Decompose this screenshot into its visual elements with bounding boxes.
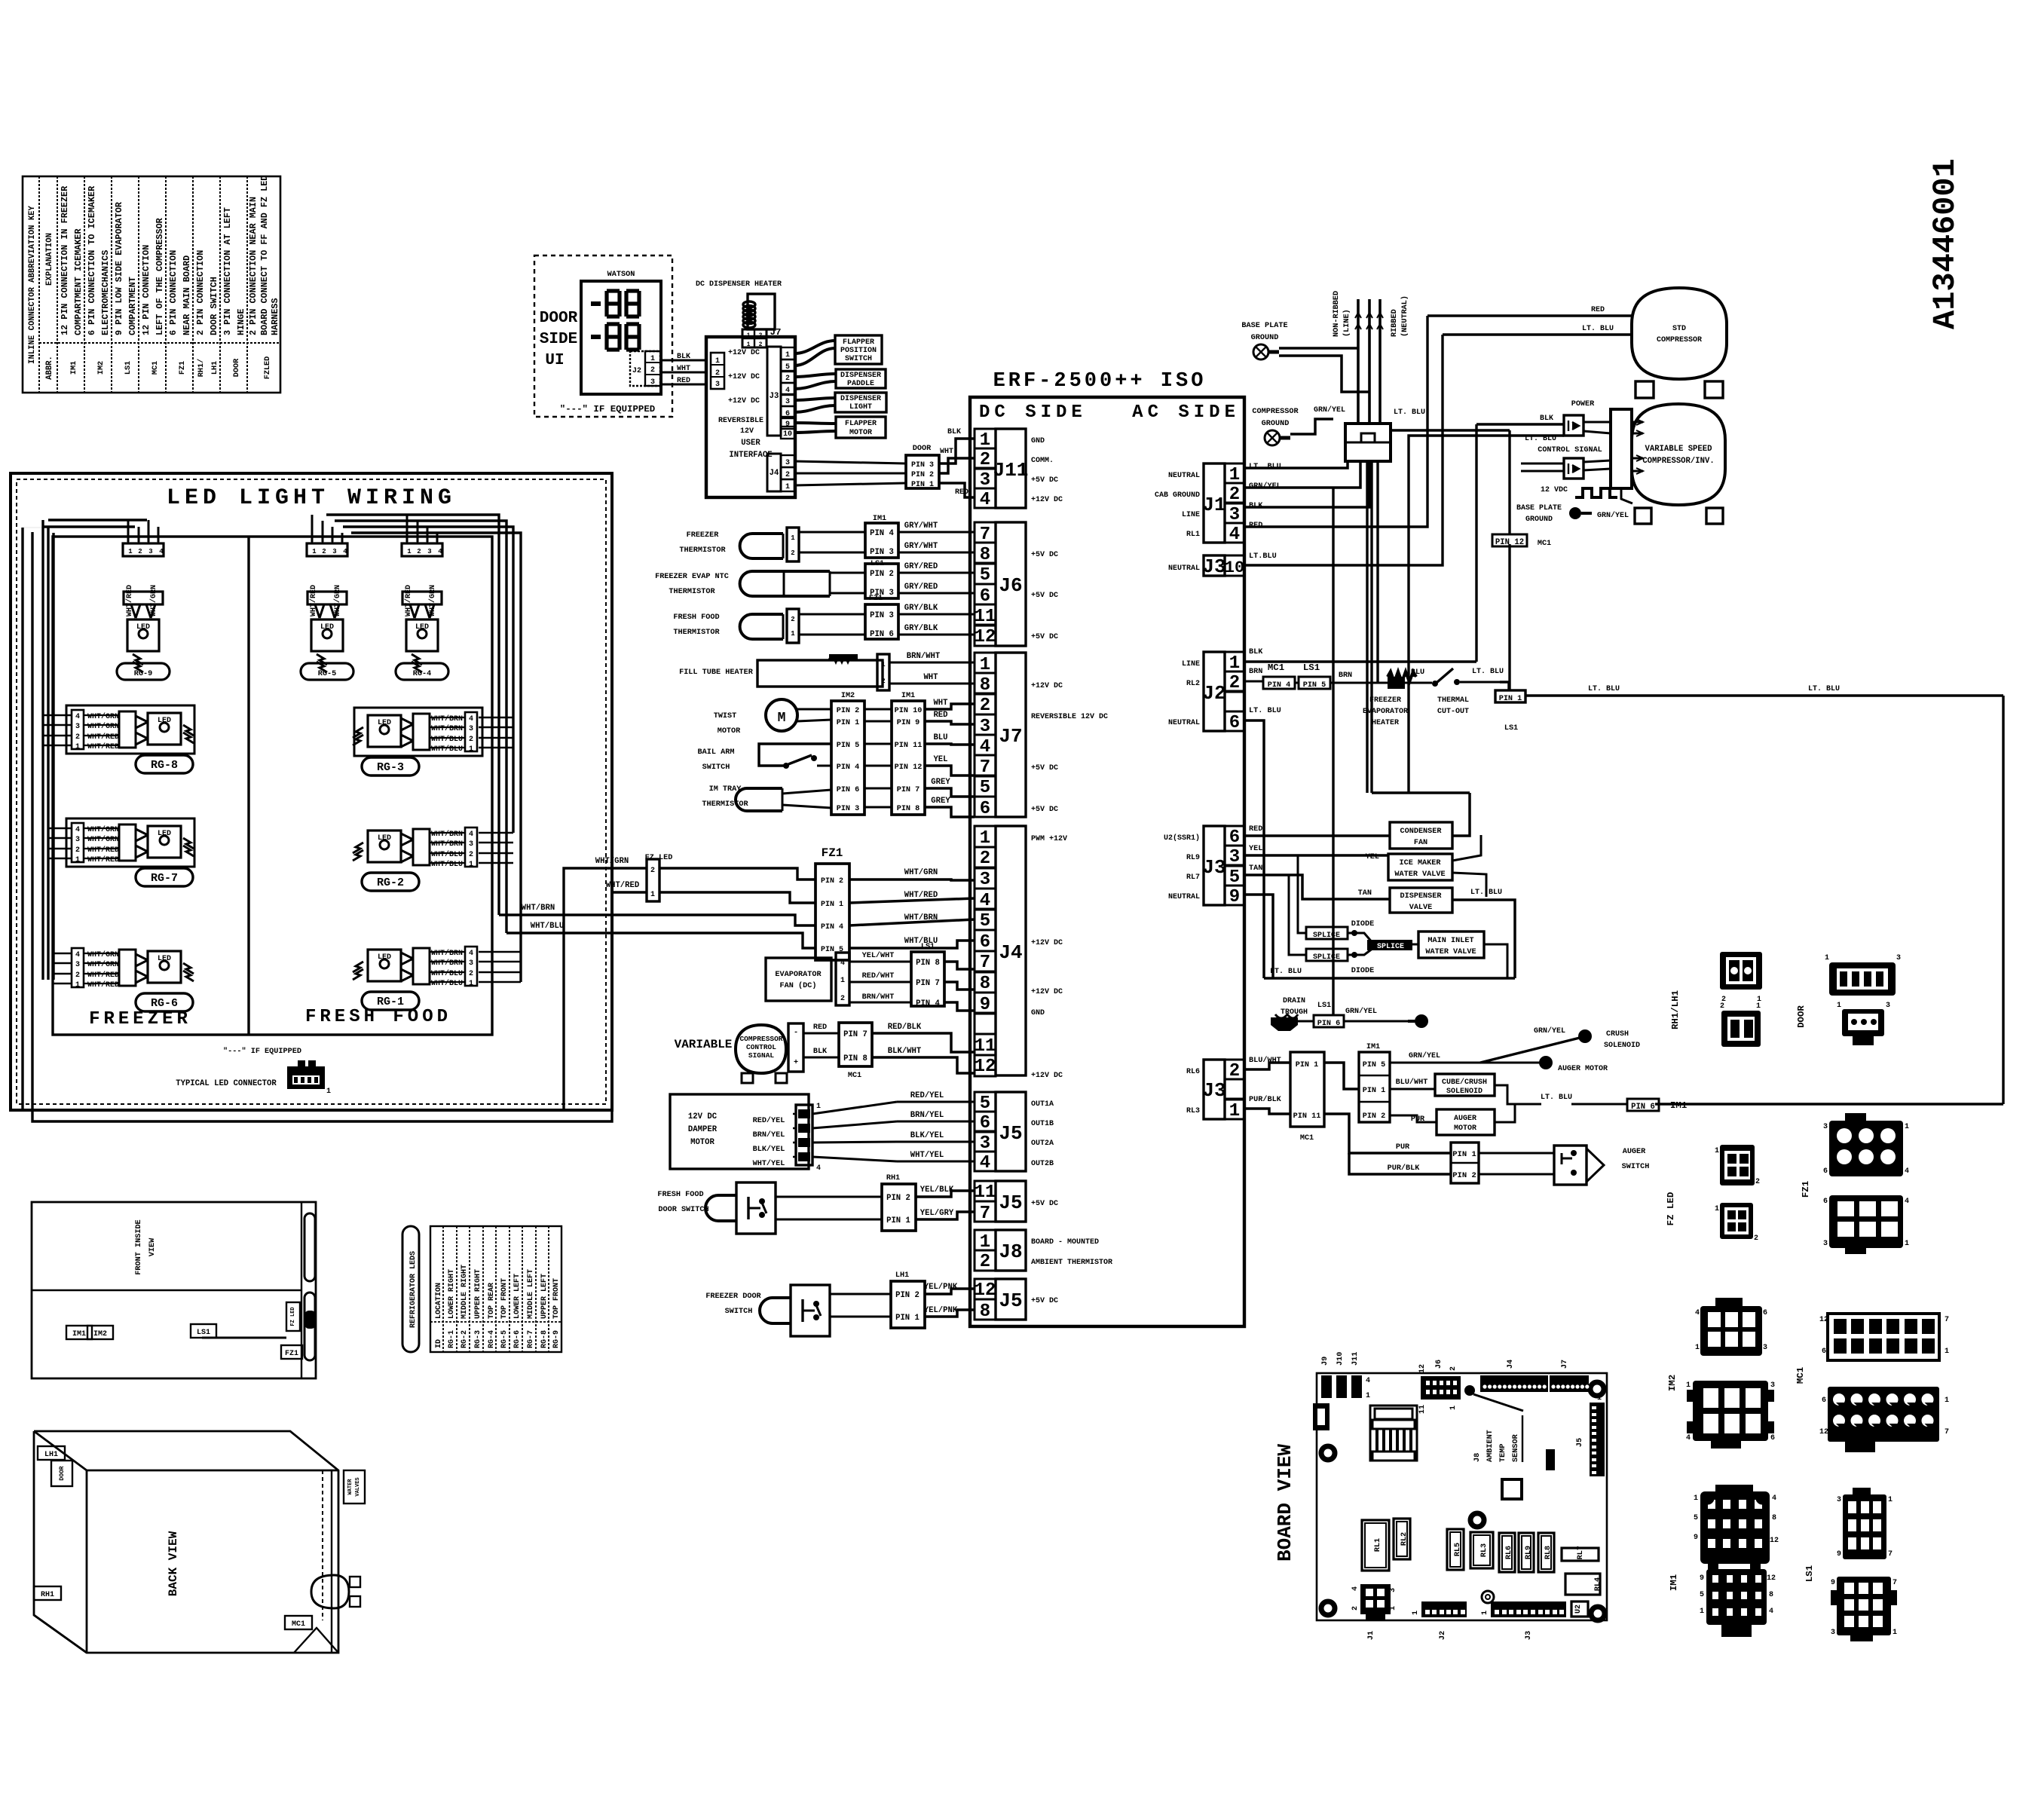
svg-text:1: 1 (1825, 954, 1829, 962)
svg-text:1: 1 (128, 548, 133, 555)
svg-text:4: 4 (816, 1164, 821, 1173)
svg-text:DISPENSER: DISPENSER (1400, 892, 1442, 901)
svg-text:1: 1 (1700, 1608, 1704, 1616)
svg-text:12: 12 (1418, 1364, 1427, 1373)
svg-text:6 PIN CONNECTION TO ICEMAKER: 6 PIN CONNECTION TO ICEMAKER (87, 185, 97, 335)
svg-text:PIN 3: PIN 3 (837, 805, 860, 813)
svg-text:2: 2 (791, 616, 794, 623)
svg-text:+5V DC: +5V DC (1031, 764, 1058, 772)
LED wiring harness - left bundle (23, 520, 158, 984)
connector view DOOR (1796, 954, 1901, 1045)
svg-text:+5V DC: +5V DC (1031, 1297, 1058, 1305)
svg-text:+12V DC: +12V DC (1031, 1072, 1063, 1080)
svg-text:RL6: RL6 (1505, 1546, 1513, 1559)
svg-text:PIN 2: PIN 2 (1363, 1112, 1386, 1121)
svg-text:6: 6 (1770, 1434, 1775, 1442)
svg-text:RL1: RL1 (1374, 1538, 1382, 1552)
svg-text:DOOR: DOOR (59, 1466, 66, 1480)
board edge connector (left) (1313, 1403, 1330, 1430)
svg-text:BLK: BLK (1249, 648, 1263, 656)
svg-text:NEUTRAL: NEUTRAL (1168, 719, 1200, 727)
svg-text:6: 6 (1823, 1198, 1828, 1206)
svg-text:2: 2 (980, 1252, 990, 1272)
svg-text:BOARD - MOUNTED: BOARD - MOUNTED (1031, 1238, 1099, 1247)
svg-text:BRN/WHT: BRN/WHT (907, 652, 941, 661)
svg-text:GND: GND (1031, 1009, 1045, 1017)
svg-text:+12V DC: +12V DC (1031, 496, 1063, 504)
svg-text:PIN 1: PIN 1 (1452, 1150, 1476, 1159)
svg-text:BRN/YEL: BRN/YEL (910, 1111, 944, 1120)
board connector J5 (975, 1181, 1058, 1224)
svg-text:4: 4 (1695, 1309, 1700, 1317)
svg-text:WHT/RED: WHT/RED (87, 971, 119, 980)
svg-text:WHT/BRN: WHT/BRN (431, 949, 463, 958)
svg-text:2: 2 (469, 736, 473, 744)
svg-text:1: 1 (840, 977, 845, 985)
svg-text:J9: J9 (1321, 1357, 1330, 1366)
svg-text:4: 4 (469, 715, 473, 723)
svg-text:GROUND: GROUND (1262, 420, 1290, 428)
svg-text:WATER VALVE: WATER VALVE (1425, 948, 1476, 956)
svg-text:4: 4 (1772, 1494, 1776, 1503)
svg-text:1: 1 (75, 981, 80, 990)
splices and diodes (1289, 855, 1507, 978)
svg-text:LT. BLU: LT. BLU (1270, 968, 1302, 976)
svg-text:1: 1 (326, 1088, 331, 1096)
svg-text:WHT/GRN: WHT/GRN (87, 722, 119, 731)
svg-text:YEL/BLK: YEL/BLK (920, 1185, 954, 1195)
svg-text:FREEZER: FREEZER (687, 531, 720, 540)
svg-text:3: 3 (1837, 1496, 1841, 1504)
svg-text:NEUTRAL: NEUTRAL (1168, 893, 1200, 901)
svg-text:LIGHT: LIGHT (849, 403, 872, 411)
svg-text:8: 8 (980, 974, 990, 994)
svg-text:8: 8 (980, 545, 990, 565)
svg-text:1: 1 (75, 856, 80, 864)
svg-text:4: 4 (75, 951, 80, 959)
svg-text:3: 3 (1763, 1344, 1767, 1352)
svg-text:RED: RED (933, 711, 947, 720)
connector view IM1 (1669, 1485, 1779, 1637)
svg-text:RL6: RL6 (1186, 1068, 1200, 1076)
svg-text:FLAPPER: FLAPPER (845, 420, 877, 428)
svg-text:TOP FRONT: TOP FRONT (500, 1278, 509, 1319)
svg-text:PIN 11: PIN 11 (1293, 1112, 1321, 1121)
svg-text:CUT-OUT: CUT-OUT (1437, 708, 1469, 716)
svg-text:PIN 1: PIN 1 (1296, 1061, 1319, 1069)
J2 neutral wire (1244, 720, 1264, 978)
svg-text:LH1: LH1 (895, 1271, 909, 1280)
svg-text:4: 4 (840, 959, 845, 968)
svg-text:9: 9 (1837, 1550, 1841, 1559)
svg-text:"---" IF EQUIPPED: "---" IF EQUIPPED (560, 404, 655, 415)
svg-text:1: 1 (1449, 1406, 1458, 1410)
svg-text:VIEW: VIEW (148, 1237, 157, 1256)
svg-text:MC1: MC1 (1268, 662, 1284, 673)
svg-text:MIDDLE LEFT: MIDDLE LEFT (527, 1269, 535, 1319)
svg-text:FAN: FAN (1414, 839, 1427, 847)
svg-text:+5V DC: +5V DC (1031, 551, 1058, 559)
svg-text:POSITION: POSITION (840, 347, 877, 355)
svg-text:2 PIN CONNECTION NEAR MAIN: 2 PIN CONNECTION NEAR MAIN (248, 197, 259, 335)
main control board ERF-2500++ ISO (970, 370, 1244, 1326)
svg-text:7: 7 (980, 1204, 990, 1224)
svg-text:CUBE/CRUSH: CUBE/CRUSH (1442, 1078, 1487, 1087)
svg-text:WHT/GRN: WHT/GRN (87, 960, 119, 969)
DOOR inline connector (794, 445, 939, 489)
svg-text:4: 4 (469, 831, 473, 839)
STD compressor (1427, 288, 1727, 398)
svg-text:6: 6 (980, 932, 990, 953)
svg-text:1: 1 (1694, 1494, 1698, 1503)
svg-text:7: 7 (1888, 1550, 1893, 1559)
svg-text:LT. BLU: LT. BLU (1582, 325, 1614, 333)
svg-text:PIN 1: PIN 1 (837, 719, 860, 727)
svg-text:LED: LED (320, 623, 334, 632)
inline IM1 pin 6 (1541, 696, 2003, 1112)
svg-text:1: 1 (791, 630, 795, 638)
IM tray thermistor (702, 785, 831, 811)
svg-text:RL1: RL1 (1186, 531, 1200, 539)
svg-text:GRN/YEL: GRN/YEL (1314, 405, 1345, 415)
twist motor (714, 699, 831, 736)
svg-text:1: 1 (650, 355, 655, 363)
svg-text:8: 8 (980, 1302, 990, 1322)
connector view FZ LED (1666, 1145, 1760, 1243)
svg-text:WHT/RED: WHT/RED (87, 846, 119, 855)
svg-text:LS1: LS1 (921, 943, 935, 951)
svg-text:EVAPORATOR: EVAPORATOR (1363, 708, 1408, 716)
board connector J5 (975, 1092, 1054, 1173)
svg-text:PIN 1: PIN 1 (1363, 1087, 1386, 1095)
svg-text:DC SIDE: DC SIDE (979, 402, 1087, 423)
board connector J5 (board view) (1576, 1394, 1605, 1476)
svg-text:YEL/WHT: YEL/WHT (862, 951, 895, 960)
relay RL1 (1362, 1520, 1389, 1571)
svg-text:2: 2 (980, 450, 990, 470)
svg-text:COMPARTMENT: COMPARTMENT (127, 277, 138, 335)
svg-text:WHT/GRN: WHT/GRN (87, 825, 119, 834)
svg-text:PIN 11: PIN 11 (895, 742, 923, 750)
svg-text:BLK/WHT: BLK/WHT (888, 1047, 922, 1056)
svg-text:SIGNAL: SIGNAL (748, 1051, 775, 1060)
svg-text:USER: USER (741, 439, 760, 448)
svg-text:IM1: IM1 (1670, 1100, 1687, 1111)
LED module RG-1 (353, 947, 477, 1010)
inline connector IM1 pins (864, 692, 925, 815)
svg-text:WHT/BLU: WHT/BLU (431, 969, 463, 978)
svg-text:AUGER: AUGER (1623, 1148, 1646, 1156)
svg-text:RG-5: RG-5 (318, 670, 336, 678)
svg-text:3: 3 (427, 548, 431, 555)
svg-text:RL5: RL5 (1454, 1543, 1462, 1556)
svg-text:1: 1 (1945, 1396, 1949, 1405)
svg-text:RL2: RL2 (1186, 680, 1200, 688)
svg-text:RG-7: RG-7 (527, 1330, 535, 1348)
svg-text:LED: LED (158, 955, 171, 963)
svg-text:AMBIENT THERMISTOR: AMBIENT THERMISTOR (1031, 1259, 1112, 1267)
harness wires to J4 (WHT/GRN WHT/RED WHT/BRN WHT/BLU) (499, 868, 975, 948)
inline connector FZ1 pins (815, 846, 849, 960)
svg-text:MOTOR: MOTOR (690, 1138, 714, 1147)
svg-text:J7: J7 (1561, 1360, 1569, 1369)
LED module RG-3 (353, 708, 482, 775)
svg-text:BLK: BLK (947, 428, 961, 436)
svg-text:BLU: BLU (1411, 668, 1424, 677)
svg-text:4: 4 (1686, 1434, 1691, 1442)
svg-text:3: 3 (469, 725, 473, 733)
svg-text:J2: J2 (632, 367, 641, 375)
svg-text:1: 1 (75, 743, 80, 751)
svg-text:3: 3 (650, 378, 655, 387)
svg-text:LT.BLU: LT.BLU (1249, 552, 1277, 561)
svg-text:"---" IF EQUIPPED: "---" IF EQUIPPED (223, 1047, 301, 1056)
svg-text:PIN 1: PIN 1 (886, 1216, 910, 1225)
svg-text:WHT/GRN: WHT/GRN (87, 950, 119, 959)
svg-text:CONDENSER: CONDENSER (1400, 827, 1442, 836)
board transformer (1370, 1406, 1417, 1461)
svg-text:12: 12 (1819, 1316, 1828, 1324)
svg-text:J10: J10 (1336, 1352, 1345, 1366)
board connector J3 (board view) (1481, 1601, 1566, 1640)
svg-text:IM2: IM2 (97, 361, 106, 375)
base plate ground lug (top) (1241, 322, 1369, 392)
svg-text:2: 2 (785, 375, 790, 383)
svg-text:LS1: LS1 (197, 1329, 210, 1337)
svg-text:PUR/BLK: PUR/BLK (1388, 1164, 1421, 1173)
LED module RG-2 (353, 827, 477, 891)
svg-text:PIN 2: PIN 2 (870, 570, 894, 579)
svg-text:2: 2 (650, 366, 655, 375)
svg-text:J5: J5 (999, 1122, 1022, 1145)
svg-text:J4: J4 (999, 941, 1022, 964)
freezer / fresh food inner box (53, 537, 492, 1035)
variable compressor control signal (675, 1023, 975, 1083)
svg-text:LH1: LH1 (44, 1451, 58, 1459)
svg-text:LS1: LS1 (1317, 1002, 1331, 1010)
svg-text:LED: LED (378, 719, 391, 727)
flapper position switch (835, 335, 882, 364)
svg-text:+5V DC: +5V DC (1031, 633, 1058, 641)
board connector J8 (975, 1230, 1112, 1272)
svg-text:4: 4 (1229, 525, 1240, 545)
svg-text:J4: J4 (770, 469, 779, 478)
svg-text:PIN 1: PIN 1 (821, 901, 843, 909)
svg-text:MOTOR: MOTOR (849, 429, 872, 437)
WATSON door-side UI (if equipped) (534, 255, 672, 417)
svg-text:WHT/BLU: WHT/BLU (431, 979, 463, 988)
svg-text:BLK/YEL: BLK/YEL (753, 1145, 785, 1154)
svg-text:PIN 6: PIN 6 (837, 786, 860, 794)
svg-text:BOARD CONNECT TO FF AND FZ LED: BOARD CONNECT TO FF AND FZ LED (259, 176, 270, 335)
svg-text:6: 6 (980, 799, 990, 819)
svg-text:THERMAL: THERMAL (1437, 696, 1469, 705)
svg-text:MC1: MC1 (1300, 1134, 1314, 1143)
svg-text:HEATER: HEATER (1372, 719, 1399, 727)
svg-text:DAMPER: DAMPER (688, 1125, 718, 1134)
svg-text:1: 1 (1715, 1205, 1719, 1213)
fresh food thermistor (673, 595, 975, 643)
svg-text:+5V DC: +5V DC (1031, 592, 1058, 600)
svg-text:2: 2 (75, 733, 80, 742)
svg-text:RL9: RL9 (1186, 854, 1200, 862)
svg-text:1: 1 (1366, 1392, 1370, 1400)
svg-text:AUGER MOTOR: AUGER MOTOR (1558, 1065, 1608, 1073)
svg-text:3 PIN CONNECTION AT LEFT: 3 PIN CONNECTION AT LEFT (222, 207, 233, 335)
svg-text:LINE: LINE (1182, 511, 1200, 519)
svg-text:2: 2 (881, 678, 885, 685)
svg-text:10: 10 (1225, 558, 1244, 577)
svg-text:FZ1: FZ1 (822, 846, 843, 860)
svg-text:1: 1 (1945, 1348, 1949, 1356)
svg-text:PIN 2: PIN 2 (895, 1291, 919, 1300)
svg-text:SOLENOID: SOLENOID (1604, 1042, 1640, 1050)
svg-text:J3: J3 (1202, 856, 1225, 879)
svg-text:BASE PLATE: BASE PLATE (1241, 322, 1287, 330)
svg-text:WHT/BRN: WHT/BRN (522, 904, 555, 913)
connector view FZ1 (1801, 1113, 1909, 1254)
svg-text:FREEZER: FREEZER (1369, 696, 1401, 705)
svg-text:SIDE: SIDE (540, 331, 577, 348)
svg-text:ICE MAKER: ICE MAKER (1399, 859, 1441, 867)
svg-text:11: 11 (975, 1036, 996, 1057)
svg-text:BLK: BLK (1540, 415, 1553, 423)
svg-text:PIN 2: PIN 2 (911, 471, 934, 479)
svg-text:GROUND: GROUND (1251, 334, 1279, 342)
svg-text:3: 3 (332, 548, 336, 555)
svg-text:WHT/BRN: WHT/BRN (431, 959, 463, 968)
svg-text:LT. BLU: LT. BLU (1525, 435, 1556, 443)
svg-text:PIN 12: PIN 12 (895, 763, 923, 772)
svg-text:FRONT INSIDE: FRONT INSIDE (135, 1219, 143, 1274)
fill tube heater (679, 652, 975, 690)
svg-text:SPLICE: SPLICE (1313, 932, 1340, 940)
svg-text:RG-9: RG-9 (134, 670, 152, 678)
svg-text:WHT/GRN: WHT/GRN (87, 835, 119, 844)
svg-text:AMBIENT: AMBIENT (1486, 1430, 1495, 1462)
svg-text:SWITCH: SWITCH (845, 355, 872, 363)
svg-text:LS1: LS1 (124, 361, 133, 375)
svg-text:12: 12 (1770, 1537, 1779, 1545)
svg-text:PIN 2: PIN 2 (886, 1194, 910, 1203)
svg-text:VARIABLE: VARIABLE (675, 1038, 733, 1051)
svg-text:LS1: LS1 (1303, 662, 1320, 673)
svg-text:LED: LED (378, 834, 391, 843)
svg-text:TEMP: TEMP (1499, 1444, 1507, 1462)
svg-text:FRESH FOOD: FRESH FOOD (673, 613, 719, 622)
svg-text:HINGE: HINGE (236, 309, 246, 335)
svg-text:UPPER LEFT: UPPER LEFT (540, 1274, 549, 1319)
svg-text:SPLICE: SPLICE (1377, 943, 1404, 951)
svg-text:6: 6 (980, 1113, 990, 1133)
svg-text:3: 3 (1831, 1629, 1835, 1637)
svg-text:PIN 4: PIN 4 (837, 763, 860, 772)
svg-text:RG-8: RG-8 (151, 759, 178, 772)
svg-text:J3: J3 (1202, 1079, 1225, 1102)
svg-text:LT. BLU: LT. BLU (1588, 685, 1620, 693)
board connectors J9 J10 J11 (board view) (1321, 1352, 1370, 1400)
svg-text:J7: J7 (999, 725, 1022, 748)
svg-text:1: 1 (1412, 1611, 1420, 1615)
svg-text:PUR: PUR (1396, 1143, 1410, 1152)
UI connector J4 (767, 454, 781, 491)
svg-text:9 PIN LOW SIDE EVAPORATOR: 9 PIN LOW SIDE EVAPORATOR (114, 201, 124, 335)
svg-text:DOOR SWITCH: DOOR SWITCH (658, 1206, 708, 1214)
svg-text:GRN/YEL: GRN/YEL (1249, 482, 1281, 491)
svg-text:U2(SSR1): U2(SSR1) (1164, 834, 1200, 843)
svg-text:VALVE: VALVE (1409, 904, 1433, 912)
svg-text:LED: LED (158, 717, 171, 725)
svg-text:11: 11 (975, 1182, 996, 1203)
svg-text:CONTROL: CONTROL (746, 1043, 776, 1051)
svg-text:TROUGH: TROUGH (1281, 1008, 1308, 1017)
svg-text:RED/YEL: RED/YEL (753, 1116, 785, 1125)
auger switch (1388, 1143, 1650, 1185)
svg-text:7: 7 (1945, 1316, 1949, 1324)
svg-text:9: 9 (1694, 1534, 1698, 1542)
front inside view (32, 1202, 316, 1378)
svg-text:2: 2 (980, 849, 990, 869)
svg-text:RL9: RL9 (1525, 1546, 1533, 1559)
svg-text:NON-RIBBED: NON-RIBBED (1333, 291, 1341, 337)
svg-text:RG-4: RG-4 (488, 1330, 496, 1348)
12V DC damper motor (670, 1091, 975, 1173)
svg-text:REVERSIBLE: REVERSIBLE (718, 417, 763, 425)
svg-text:J11: J11 (993, 459, 1029, 482)
svg-text:GRY/RED: GRY/RED (904, 562, 938, 571)
svg-text:WATER VALVE: WATER VALVE (1394, 870, 1445, 879)
svg-text:J11: J11 (1351, 1352, 1360, 1366)
svg-text:2: 2 (469, 970, 473, 978)
svg-text:J5: J5 (999, 1192, 1022, 1214)
svg-text:GROUND: GROUND (1525, 515, 1553, 524)
board connector J1 (AC side) (1155, 463, 1244, 545)
svg-text:FZ1: FZ1 (869, 595, 883, 603)
svg-text:IM1: IM1 (1366, 1043, 1380, 1051)
svg-text:GREY: GREY (931, 778, 950, 787)
svg-text:12 PIN CONNECTION IN FREEZER: 12 PIN CONNECTION IN FREEZER (60, 185, 70, 335)
svg-text:3: 3 (75, 836, 80, 844)
svg-text:J8: J8 (1473, 1453, 1482, 1462)
svg-text:2: 2 (417, 548, 421, 555)
svg-text:-: - (794, 1029, 798, 1037)
svg-text:6: 6 (1823, 1167, 1828, 1176)
svg-text:WHT: WHT (923, 673, 938, 682)
svg-text:PIN 2: PIN 2 (837, 707, 860, 715)
svg-text:9: 9 (1700, 1574, 1704, 1583)
svg-text:J2: J2 (1202, 682, 1225, 705)
svg-text:LED: LED (136, 623, 150, 632)
svg-text:5: 5 (980, 778, 990, 798)
svg-text:RIBBED: RIBBED (1391, 309, 1399, 337)
svg-text:WATSON: WATSON (607, 271, 635, 279)
dispenser light (835, 393, 886, 412)
svg-text:1: 1 (1837, 1002, 1841, 1010)
freezer door switch (705, 1271, 975, 1336)
BOARD VIEW main PCB (1274, 1373, 1607, 1620)
svg-text:J5: J5 (999, 1289, 1022, 1312)
svg-text:4: 4 (1366, 1377, 1370, 1385)
svg-text:SPLICE: SPLICE (1313, 953, 1340, 962)
svg-text:WHT/YEL: WHT/YEL (910, 1151, 944, 1160)
svg-text:RG-3: RG-3 (377, 761, 404, 774)
svg-text:PIN 6: PIN 6 (1317, 1020, 1341, 1028)
svg-text:RH1/LH1: RH1/LH1 (1670, 990, 1681, 1029)
board connector J4 (975, 826, 1067, 1080)
svg-text:2: 2 (759, 341, 763, 348)
svg-text:PIN 2: PIN 2 (1452, 1171, 1476, 1180)
svg-text:LINE: LINE (1182, 660, 1200, 668)
